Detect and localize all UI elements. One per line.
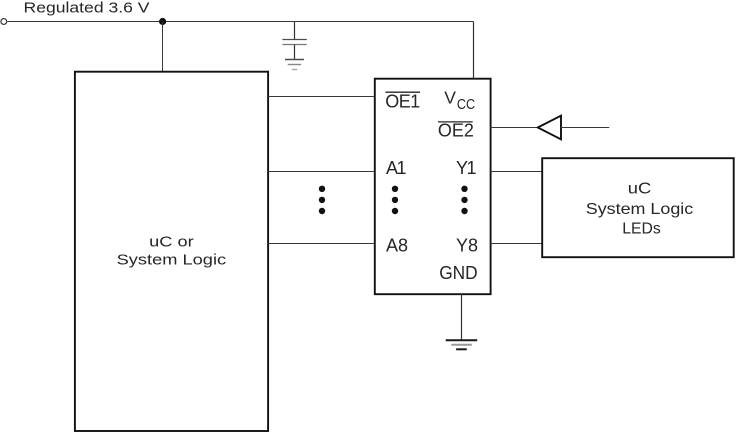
svg-text:CC: CC <box>457 97 475 113</box>
svg-text:V: V <box>444 88 456 108</box>
svg-text:Regulated 3.6 V: Regulated 3.6 V <box>24 0 150 16</box>
svg-text:System Logic: System Logic <box>586 201 694 218</box>
svg-text:uC: uC <box>628 180 652 197</box>
svg-text:A1: A1 <box>386 158 407 178</box>
svg-text:LEDs: LEDs <box>622 221 661 238</box>
svg-text:Y8: Y8 <box>456 236 478 256</box>
svg-text:A8: A8 <box>386 236 408 256</box>
svg-text:Y1: Y1 <box>456 158 477 178</box>
svg-text:GND: GND <box>439 263 478 283</box>
svg-text:OE2: OE2 <box>438 120 474 140</box>
svg-text:System Logic: System Logic <box>117 252 227 269</box>
svg-text:OE1: OE1 <box>385 92 420 112</box>
svg-text:uC or: uC or <box>149 233 194 250</box>
